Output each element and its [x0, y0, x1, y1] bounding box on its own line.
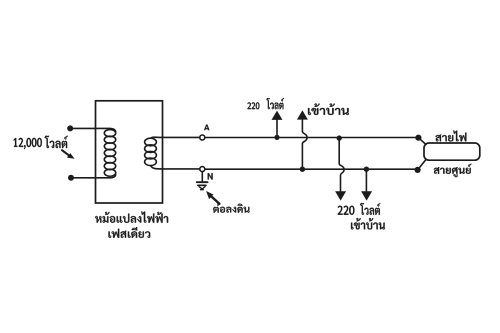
node N terminal circle — [200, 167, 205, 172]
label lbl-220bot-volt: โวลต์ — [360, 203, 380, 215]
service cable (rounded capsule) — [424, 143, 480, 160]
220V up arrow (tap on top bus) — [272, 112, 281, 137]
ground symbol at node N — [197, 172, 208, 190]
junction dot: service end bottom — [415, 167, 421, 173]
down arrow from top bus with hop over bottom bus — [336, 139, 345, 200]
junction dot: left terminal top — [67, 125, 73, 131]
label lbl-N: N — [208, 173, 213, 179]
junction dot: left terminal bottom — [68, 175, 74, 181]
label lbl-220top-volt: โวลต์ — [267, 98, 284, 109]
wire: top bus from node A to service end — [205, 137, 419, 139]
wire: diagonal into service cable top — [418, 138, 426, 145]
text labels (vectorized Thai) — [14, 98, 472, 238]
arrow pointing to ground symbol — [206, 191, 219, 204]
label lbl-housebot: เข้าบ้าน — [351, 218, 385, 229]
primary coil L1 — [104, 130, 115, 177]
wire: bottom bus from transformer to node N — [163, 168, 200, 170]
wire: secondary top lead — [151, 137, 163, 138]
label lbl-ground: ต่อลงดิน — [213, 204, 249, 213]
junction dot on top bus at 220V tap — [274, 135, 279, 140]
label lbl-12000-volt: โวลต์ — [45, 136, 68, 148]
node A terminal circle — [200, 135, 205, 140]
wire: primary top lead — [70, 128, 116, 132]
junction dot on bottom bus at second down-feed tap — [364, 167, 369, 172]
label lbl-220top-num: 220 — [248, 102, 260, 109]
label lbl-220bot-num: 220 — [338, 206, 355, 215]
secondary coil L2 — [145, 138, 157, 165]
wire: top bus from transformer to node A — [163, 136, 200, 138]
house feed up arrow with hop over top bus — [298, 111, 307, 168]
label lbl-housetop: เข้าบ้าน — [308, 104, 349, 115]
junction dot on bottom bus at house feed tap — [300, 167, 305, 172]
transformer enclosure box — [96, 101, 163, 203]
down arrow from bottom bus — [362, 171, 371, 200]
label lbl-xformer1: หม้อแปลงไฟฟ้า — [95, 211, 168, 222]
wire: diagonal into service cable bottom — [418, 160, 426, 170]
label lbl-12000-num: 12,000 — [14, 138, 42, 149]
wire: primary bottom lead — [71, 174, 116, 178]
wire: secondary bottom lead — [151, 166, 163, 169]
wire: bottom bus from node N to service end — [205, 168, 418, 170]
label lbl-neutral: สายศูนย์ — [434, 164, 472, 177]
junction dot: service end top — [415, 135, 421, 141]
label lbl-live: สายไฟ — [436, 131, 467, 142]
junction dot on top bus at down-feed tap — [337, 135, 342, 140]
arrow from 12,000 volt label — [62, 150, 75, 159]
label lbl-A: A — [204, 125, 209, 131]
label lbl-xformer2: เฟสเดียว — [109, 227, 151, 238]
